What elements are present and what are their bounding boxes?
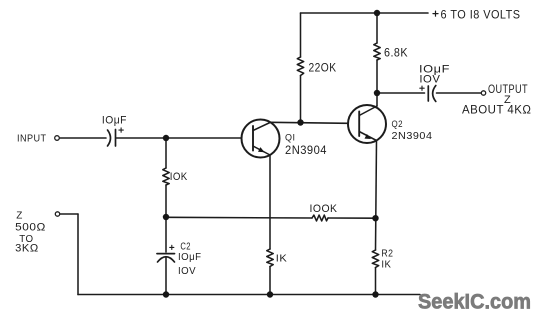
wire 10K branch top lead [165, 138, 167, 168]
transistor Q1 circle [242, 120, 280, 158]
junction Q2 collector node [374, 90, 380, 96]
transistor Q1 emitter arrow [258, 147, 265, 152]
terminal output [481, 91, 485, 95]
transistor Q2 circle [348, 105, 386, 143]
svg-text:Q2: Q2 [392, 119, 404, 129]
wire 220K branch top lead [300, 13, 302, 57]
junction rail / 1K [267, 291, 273, 297]
junction 220K / base line [297, 119, 303, 125]
svg-text:QI: QI [285, 133, 296, 143]
capacitor C2 plates [157, 254, 175, 262]
wire mid line right of 100K [328, 217, 376, 219]
junction rail / R2 [372, 291, 378, 297]
transistor Q1 collector diagonal [253, 123, 270, 131]
wire capacitor to Q1 base [117, 137, 242, 139]
supply plus sign [433, 11, 438, 16]
junction 100K / R2 / emitter [372, 215, 378, 221]
wire Q2 emitter vertical [376, 141, 377, 251]
wire C2 top lead [165, 217, 167, 252]
junction top rail / 6.8K [374, 10, 380, 16]
svg-text:6 TO I8 VOLTS: 6 TO I8 VOLTS [441, 8, 521, 22]
svg-text:IOμF: IOμF [178, 251, 202, 263]
capacitor input polarity plus [119, 128, 123, 132]
transistor Q1 emitter diagonal [253, 146, 270, 155]
wire input terminal to capacitor [60, 137, 107, 139]
resistor 100K [312, 215, 328, 221]
wire 10K branch bottom lead [165, 185, 167, 217]
capacitor C2 polarity plus [170, 245, 174, 249]
junction rail / C2 [163, 291, 169, 297]
wire 6.8K branch bottom lead [376, 60, 378, 93]
svg-text:2N3904: 2N3904 [285, 145, 327, 157]
resistor 10K [163, 168, 169, 185]
resistor 220K [297, 57, 303, 76]
wire Q2 collector node to output capacitor [377, 92, 425, 94]
wire 6.8K branch top lead [376, 13, 378, 43]
svg-text:ABOUT 4KΩ: ABOUT 4KΩ [462, 105, 532, 117]
resistor R2 1K [372, 250, 378, 268]
svg-text:Z: Z [16, 210, 23, 221]
svg-text:IOOK: IOOK [310, 203, 338, 215]
wire output capacitor to output terminal [437, 92, 482, 94]
transistor Q2 emitter diagonal [359, 132, 376, 141]
wire bottom rail [78, 294, 420, 296]
svg-text:IK: IK [381, 258, 391, 270]
wire 1K bottom lead [269, 267, 271, 295]
wire Q1 emitter vertical [269, 155, 271, 249]
terminal Z source [55, 212, 59, 216]
junction input / 10K [163, 135, 169, 141]
transistor Q2 collector diagonal [359, 106, 377, 116]
wire Z terminal horizontal [60, 213, 79, 215]
wire top supply rail [301, 12, 429, 14]
wire R2 bottom lead [375, 268, 377, 295]
svg-text:2N3904: 2N3904 [392, 131, 433, 142]
svg-text:IOV: IOV [178, 265, 196, 277]
svg-text:IK: IK [276, 253, 288, 265]
svg-text:22OK: 22OK [309, 63, 337, 75]
svg-text:IOμF: IOμF [102, 115, 127, 127]
svg-text:6.8K: 6.8K [384, 48, 408, 60]
wire Q2 collector vertical [376, 93, 378, 106]
resistor 1K (left) [267, 249, 273, 267]
svg-text:IOV: IOV [419, 74, 440, 86]
svg-text:IOK: IOK [170, 171, 188, 183]
wire 220K branch bottom lead [300, 76, 302, 123]
wire Q1 collector to Q2 base [270, 122, 349, 123]
transistor Q2 base bar [358, 112, 360, 137]
junction 10K / C2 / mid line [163, 214, 169, 220]
transistor Q1 base bar [252, 126, 254, 151]
capacitor input 10uF plates [108, 130, 116, 147]
capacitor output polarity plus [420, 86, 424, 90]
capacitor output 10uF plates [428, 86, 436, 102]
wire Z terminal vertical [77, 214, 79, 295]
wire mid line left of 100K [166, 216, 312, 219]
resistor 6.8K [374, 43, 380, 60]
transistor Q2 emitter arrow [365, 134, 372, 139]
svg-text:SeekIC.com: SeekIC.com [418, 290, 531, 314]
terminal input [55, 136, 60, 141]
wire C2 bottom lead [165, 257, 167, 295]
svg-text:3KΩ: 3KΩ [15, 243, 39, 255]
svg-text:500Ω: 500Ω [15, 222, 46, 234]
svg-text:INPUT: INPUT [17, 134, 47, 145]
